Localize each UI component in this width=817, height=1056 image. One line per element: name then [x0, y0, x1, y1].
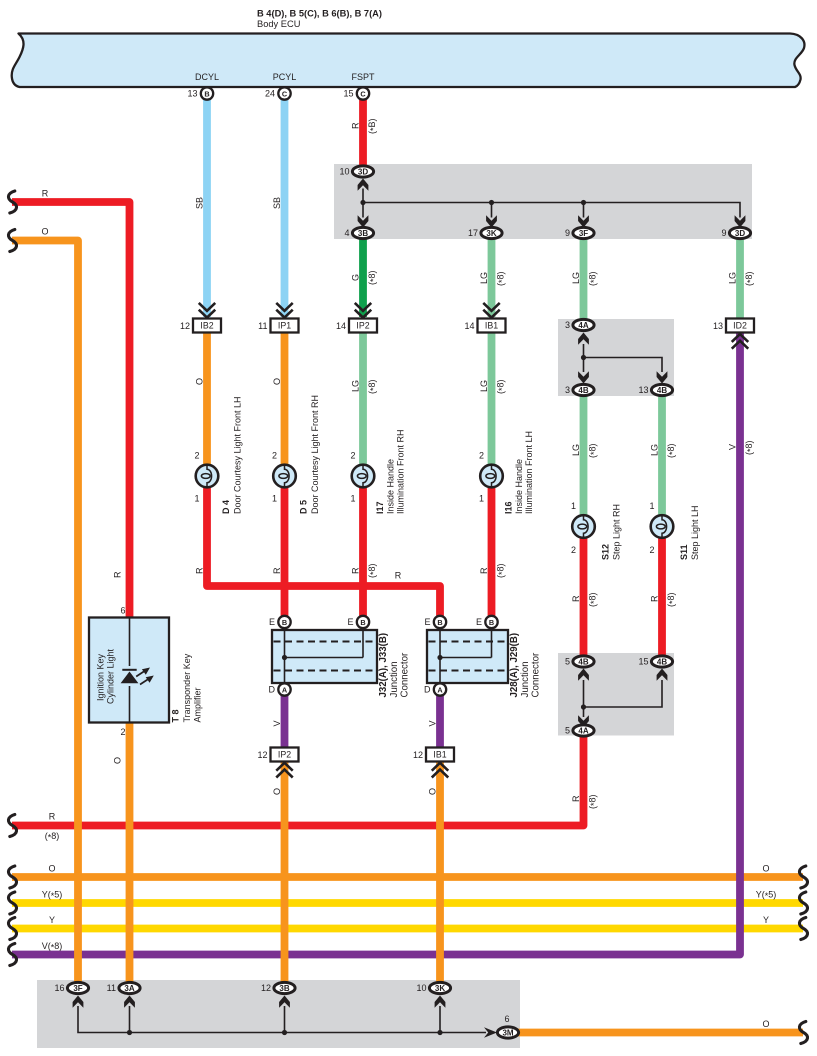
connector 15(4B) — [638, 656, 672, 667]
svg-text:13: 13 — [187, 89, 197, 99]
svg-text:R: R — [272, 567, 282, 574]
svg-text:LG: LG — [728, 272, 738, 284]
svg-text:1: 1 — [479, 494, 484, 504]
pin E(B) J32 right — [347, 616, 369, 628]
svg-text:(*8): (*8) — [666, 443, 678, 458]
wire O from 3M to right break — [518, 1029, 803, 1037]
svg-text:D 4: D 4 — [221, 500, 231, 514]
svg-text:2: 2 — [479, 451, 484, 461]
wire O horizontal bus — [12, 873, 803, 881]
svg-text:3B: 3B — [279, 984, 289, 993]
svg-text:Connector: Connector — [531, 652, 542, 697]
svg-text:3F: 3F — [73, 984, 82, 993]
svg-text:PCYL: PCYL — [273, 72, 297, 82]
svg-text:(*8): (*8) — [588, 592, 600, 607]
connector 16(3F) — [54, 982, 88, 993]
svg-text:C: C — [282, 89, 288, 98]
svg-text:Y: Y — [763, 915, 769, 925]
svg-text:(*8): (*8) — [666, 592, 678, 607]
wire LG from IP2 to I17 — [359, 332, 367, 476]
wire internal horizontal bus in relay block — [363, 203, 740, 218]
svg-text:Y(*5): Y(*5) — [756, 890, 777, 902]
svg-text:15: 15 — [638, 657, 648, 667]
svg-text:LG: LG — [479, 380, 489, 392]
junction dot at 3K column — [437, 1030, 442, 1035]
svg-text:Junction: Junction — [389, 661, 400, 697]
svg-text:Door Courtesy Light Front LH: Door Courtesy Light Front LH — [233, 396, 243, 514]
wire internal J28 horizontal — [440, 657, 492, 659]
svg-text:13: 13 — [713, 321, 723, 331]
pin 15(C) FSPT — [343, 87, 369, 99]
break symbol V bus left — [8, 944, 16, 966]
break symbol O arm left — [8, 230, 16, 252]
arrow up into ID2 — [733, 334, 748, 348]
wire internal drop from 3A — [129, 1006, 131, 1033]
svg-text:3: 3 — [565, 385, 570, 395]
wire internal T8 lower — [129, 686, 131, 723]
wire internal T8 upper — [129, 618, 131, 667]
svg-text:I16: I16 — [504, 501, 514, 514]
svg-text:(*8): (*8) — [588, 271, 600, 286]
svg-text:FSPT: FSPT — [351, 72, 375, 82]
svg-text:D: D — [424, 685, 431, 695]
svg-text:V: V — [428, 720, 438, 726]
wire O from IB2 to D4 — [203, 332, 211, 476]
svg-text:V(*8): V(*8) — [42, 941, 63, 953]
svg-text:24: 24 — [265, 89, 275, 99]
svg-text:B 4(D), B 5(C), B 6(B), B 7(A): B 4(D), B 5(C), B 6(B), B 7(A) — [257, 9, 382, 19]
wire internal J28 left vertical — [439, 630, 441, 683]
svg-text:B: B — [282, 618, 287, 627]
svg-text:2: 2 — [350, 451, 355, 461]
arrow down into connector 3K — [486, 215, 497, 227]
svg-text:C: C — [360, 89, 366, 98]
wire R from S12 to 5(4B) — [580, 538, 588, 662]
junction dot at 3D column — [360, 200, 365, 205]
svg-text:6: 6 — [504, 1014, 509, 1024]
svg-text:4B: 4B — [657, 386, 667, 395]
arrow down into connector 3B — [358, 215, 369, 227]
wire LG from IB1 to I16 — [488, 332, 496, 476]
svg-text:LG: LG — [571, 272, 581, 284]
arrow up into connector 3A — [124, 996, 135, 1008]
svg-text:R: R — [351, 122, 361, 129]
connector 12 IB2 — [180, 319, 221, 333]
svg-text:(*8): (*8) — [744, 440, 756, 455]
svg-text:(*8): (*8) — [744, 271, 756, 286]
bulb S11 Step Light LH — [651, 515, 674, 539]
svg-text:Ignition Key: Ignition Key — [96, 653, 106, 701]
svg-text:14: 14 — [464, 321, 474, 331]
svg-text:R: R — [113, 571, 123, 578]
wire R from D5 to J32 pin B — [281, 487, 289, 622]
svg-text:E: E — [347, 617, 353, 627]
wire Y horizontal bus — [12, 925, 803, 933]
svg-text:(*8): (*8) — [367, 379, 379, 394]
wire O from IP1 to D5 — [281, 332, 289, 476]
svg-text:4: 4 — [344, 228, 349, 238]
junction dot J32 — [282, 655, 287, 660]
svg-text:DCYL: DCYL — [195, 72, 219, 82]
svg-text:Connector: Connector — [400, 652, 411, 697]
break symbol Y bus left — [8, 918, 16, 940]
arrow down into connector 3(4B) — [578, 371, 589, 383]
wire V from ID2 down and across to left break — [12, 332, 740, 955]
wire R from S11 to 15(4B) — [658, 538, 666, 662]
svg-text:17: 17 — [468, 228, 478, 238]
junction dot at 3A column — [127, 1030, 132, 1035]
break symbol Y5 bus left — [8, 892, 16, 914]
svg-text:Body ECU: Body ECU — [257, 19, 300, 29]
junction dot at 3B column — [282, 1030, 287, 1035]
svg-text:IB1: IB1 — [433, 750, 446, 760]
svg-text:B: B — [360, 618, 365, 627]
LED ignition key cylinder light symbol — [121, 668, 154, 685]
svg-text:IP2: IP2 — [278, 750, 291, 760]
pin E(B) J28 left — [424, 616, 446, 628]
svg-text:Inside Handle: Inside Handle — [514, 459, 524, 514]
wire R bus from left break to 5(4A) — [12, 736, 584, 826]
connector 12 IB1 lower — [413, 748, 454, 762]
bulb D4 Door Courtesy Light Front LH — [196, 464, 219, 488]
break symbol Y5 bus right — [799, 892, 807, 914]
svg-text:IB1: IB1 — [485, 321, 498, 331]
svg-text:3B: 3B — [358, 229, 368, 238]
svg-text:O: O — [272, 788, 282, 795]
svg-text:11: 11 — [258, 321, 267, 331]
svg-text:2: 2 — [120, 727, 125, 737]
wire R arm from left break to T8 pin 6 — [12, 202, 130, 618]
junction dot above 5(4A) — [581, 704, 586, 709]
svg-text:3K: 3K — [435, 984, 445, 993]
arrow down into connector 5(4A) — [578, 715, 589, 727]
svg-text:4B: 4B — [657, 657, 667, 666]
arrow up into connector 3D — [358, 179, 369, 191]
connector 9(3D) — [721, 227, 750, 238]
wire LG from 3(4B) to S12 — [580, 395, 588, 527]
svg-text:SB: SB — [272, 197, 282, 209]
arrow down into connector 3D right — [735, 215, 746, 227]
arrow into IP1 — [277, 304, 292, 318]
wire internal 3D to 3B vertical — [362, 189, 364, 218]
svg-text:Cylinder Light: Cylinder Light — [106, 648, 116, 704]
connector 9(3F) — [565, 227, 594, 238]
wire V from J32 pin A to IP2 — [281, 690, 289, 749]
wire V from J28 pin A to IB1 — [436, 690, 444, 749]
svg-text:O: O — [195, 378, 205, 385]
break symbol O bus left — [8, 866, 16, 888]
svg-text:Amplifier: Amplifier — [193, 687, 203, 722]
svg-text:IB2: IB2 — [200, 321, 213, 331]
svg-text:(*8): (*8) — [367, 270, 379, 285]
connector 12(3B) — [261, 982, 295, 993]
arrow up into IP2 lower — [277, 763, 292, 777]
svg-text:V: V — [728, 444, 738, 450]
connector 12 IP2 lower — [257, 748, 298, 762]
wire internal drop from 3K — [439, 1006, 441, 1033]
connector 3(4A) — [565, 319, 594, 330]
relay block 4 upper grey background — [558, 319, 674, 396]
arrow up into connector 15(4B) — [657, 669, 668, 681]
svg-text:3F: 3F — [579, 229, 588, 238]
svg-text:R: R — [195, 567, 205, 574]
pin D(A) J32 — [269, 683, 291, 695]
connector 11 IP1 — [258, 319, 298, 333]
wire internal J32 left vertical — [284, 630, 286, 683]
svg-text:LG: LG — [571, 444, 581, 456]
wire LG from 3D to ID2 — [736, 239, 744, 320]
bulb S12 Step Light RH — [572, 515, 595, 539]
arrow up into connector 3B bottom — [279, 996, 290, 1008]
svg-text:(*8): (*8) — [496, 271, 508, 286]
connector 4(3B) — [344, 227, 373, 238]
svg-text:3K: 3K — [486, 229, 496, 238]
svg-text:2: 2 — [649, 545, 654, 555]
svg-text:1: 1 — [649, 501, 654, 511]
svg-text:1: 1 — [272, 494, 277, 504]
relay block 3 (instrument panel junction block) grey background — [334, 164, 752, 239]
connector 10(3K) — [416, 982, 450, 993]
svg-text:Y: Y — [49, 915, 55, 925]
svg-text:O: O — [762, 864, 769, 874]
wire R from I17 to J32 pin B right — [359, 487, 367, 622]
junction dot below 4A — [581, 355, 586, 360]
wire internal J32 horizontal — [285, 657, 364, 659]
svg-text:12: 12 — [257, 750, 267, 760]
svg-text:O: O — [113, 757, 123, 764]
svg-text:5: 5 — [565, 657, 570, 667]
svg-text:3D: 3D — [735, 229, 745, 238]
svg-text:Illumination Front RH: Illumination Front RH — [396, 429, 406, 514]
wire R from I16 to J28 pin B right — [488, 487, 496, 622]
Body ECU block — [12, 34, 805, 88]
svg-text:6: 6 — [120, 606, 125, 616]
arrow into IB1 — [484, 304, 499, 318]
connector 11(3A) — [107, 982, 140, 993]
wire internal 4A branch to 13(4B) — [584, 358, 663, 373]
svg-text:J28(A), J29(B): J28(A), J29(B) — [509, 633, 520, 698]
svg-text:O: O — [762, 1019, 769, 1029]
arrow up into connector 5(4B) — [578, 669, 589, 681]
wire internal J28 right vertical — [491, 630, 493, 658]
svg-text:16: 16 — [54, 983, 64, 993]
wire internal 4A to 4B vertical — [583, 344, 585, 372]
svg-text:1: 1 — [350, 494, 355, 504]
svg-text:I17: I17 — [375, 501, 385, 514]
wire O from T8 pin 2 to 3A — [126, 723, 134, 986]
wire internal drop to 3K — [491, 203, 493, 218]
pin 13(B) DCYL — [187, 87, 213, 99]
svg-text:1: 1 — [571, 501, 576, 511]
component T8 Transponder Key Amplifier body — [89, 618, 169, 723]
bottom relay block 3 grey background — [37, 980, 520, 1048]
svg-text:R: R — [42, 189, 49, 199]
wire O from IB1 connector to 3K — [436, 761, 444, 985]
svg-text:S12: S12 — [601, 544, 611, 560]
pin E(B) J28 right — [476, 616, 498, 628]
wire internal J32 right vertical — [362, 630, 364, 658]
svg-text:S11: S11 — [679, 544, 689, 560]
svg-text:B: B — [204, 89, 209, 98]
svg-text:3D: 3D — [358, 167, 368, 176]
svg-text:5: 5 — [565, 726, 570, 736]
svg-text:Illumination Front LH: Illumination Front LH — [524, 431, 534, 514]
wire R from FSPT to 3D — [359, 99, 367, 172]
junction dot at 3F column — [581, 200, 586, 205]
svg-text:Junction: Junction — [520, 661, 531, 697]
svg-text:4B: 4B — [578, 657, 588, 666]
break symbol Y bus right — [799, 918, 807, 940]
svg-text:A: A — [437, 685, 443, 694]
svg-text:LG: LG — [351, 380, 361, 392]
connector 10(3D) — [339, 166, 373, 177]
svg-text:R: R — [571, 595, 581, 602]
svg-text:4A: 4A — [578, 726, 588, 735]
connector 5(4A) — [565, 725, 594, 736]
svg-text:O: O — [48, 864, 55, 874]
svg-text:Transponder Key: Transponder Key — [182, 653, 192, 722]
wire R bus from D4 to junction connector J28 — [207, 487, 440, 622]
svg-text:IP1: IP1 — [278, 321, 291, 331]
svg-text:R: R — [479, 567, 489, 574]
arrow up into connector 4A — [578, 333, 589, 345]
svg-text:T 8: T 8 — [171, 709, 181, 722]
connector 14 IP2 — [336, 319, 377, 333]
svg-text:Door Courtesy Light Front RH: Door Courtesy Light Front RH — [310, 395, 320, 514]
svg-text:Y(*5): Y(*5) — [42, 890, 63, 902]
svg-text:10: 10 — [339, 167, 349, 177]
junction connector J28(A) J29(B) body — [427, 630, 508, 683]
wire O from IP2 connector to 3B — [281, 761, 289, 985]
pin D(A) J28 — [424, 683, 446, 695]
junction connector J32(A) J33(B) body — [272, 630, 377, 683]
svg-text:9: 9 — [565, 228, 570, 238]
svg-text:E: E — [424, 617, 430, 627]
wire G from 3B to IP2 — [359, 239, 367, 317]
svg-text:R: R — [395, 571, 402, 581]
svg-text:J32(A), J33(B): J32(A), J33(B) — [378, 633, 389, 698]
svg-text:(*8): (*8) — [588, 794, 600, 809]
connector 17(3K) — [468, 227, 502, 238]
svg-text:LG: LG — [479, 272, 489, 284]
svg-text:11: 11 — [107, 983, 116, 993]
svg-text:3A: 3A — [124, 984, 134, 993]
svg-text:B: B — [489, 618, 494, 627]
arrow right into connector 3M — [484, 1027, 497, 1038]
svg-text:B: B — [437, 618, 442, 627]
svg-text:A: A — [282, 685, 288, 694]
junction dot J28 — [437, 655, 442, 660]
svg-text:IP2: IP2 — [356, 321, 369, 331]
wire SB from DCYL to IB2 — [203, 99, 211, 317]
connector 5(4B) — [565, 656, 594, 667]
svg-text:LG: LG — [650, 444, 660, 456]
arrow up into connector 3F bottom — [73, 996, 84, 1008]
svg-text:(*8): (*8) — [367, 563, 379, 578]
svg-text:4B: 4B — [578, 386, 588, 395]
svg-text:Inside Handle: Inside Handle — [386, 459, 396, 514]
wire Y(5) horizontal bus — [12, 899, 803, 907]
break symbol R bus left — [8, 815, 16, 837]
wire LG from 3F to 4A — [580, 239, 588, 325]
arrow down into connector 13(4B) — [657, 371, 668, 383]
wire internal drop from 3B — [284, 1006, 286, 1033]
svg-text:O: O — [41, 227, 48, 237]
wire LG from 3K to IB1 — [488, 239, 496, 317]
svg-text:D 5: D 5 — [299, 500, 309, 514]
svg-text:O: O — [272, 378, 282, 385]
junction dot at 3K column — [489, 200, 494, 205]
svg-text:(*B): (*B) — [367, 118, 379, 134]
svg-text:2: 2 — [194, 451, 199, 461]
connector 3(4B) — [565, 384, 594, 395]
svg-text:R: R — [650, 595, 660, 602]
svg-text:(*8): (*8) — [45, 831, 60, 843]
bulb D5 Door Courtesy Light Front RH — [273, 464, 296, 488]
wire internal drop to 3F — [583, 203, 585, 218]
svg-text:(*8): (*8) — [588, 443, 600, 458]
svg-text:3M: 3M — [502, 1028, 513, 1037]
svg-text:(*8): (*8) — [496, 379, 508, 394]
pin 24(C) PCYL — [265, 87, 291, 99]
arrow down into connector 3F — [578, 215, 589, 227]
svg-text:2: 2 — [571, 545, 576, 555]
arrow into IP2 — [356, 304, 371, 318]
svg-text:2: 2 — [272, 451, 277, 461]
svg-text:E: E — [269, 617, 275, 627]
bulb I16 Inside Handle Illumination Front LH — [480, 464, 503, 488]
svg-text:E: E — [476, 617, 482, 627]
svg-text:3: 3 — [565, 320, 570, 330]
svg-text:12: 12 — [261, 983, 271, 993]
svg-text:R: R — [571, 795, 581, 802]
svg-text:R: R — [49, 812, 56, 822]
svg-text:15: 15 — [343, 89, 353, 99]
svg-text:10: 10 — [416, 983, 426, 993]
svg-text:9: 9 — [721, 228, 726, 238]
arrow up into IB1 lower — [433, 763, 448, 777]
connector 13 ID2 — [713, 319, 754, 333]
break symbol O bus right — [799, 866, 807, 888]
svg-text:1: 1 — [194, 494, 199, 504]
relay block 4 lower grey background — [558, 653, 674, 736]
svg-text:13: 13 — [638, 385, 648, 395]
svg-text:14: 14 — [336, 321, 346, 331]
svg-text:4A: 4A — [578, 321, 588, 330]
wire internal 5(4B) to 5(4A) vertical — [583, 680, 585, 717]
arrow into IB2 — [200, 304, 215, 318]
connector 14 IB1 — [464, 319, 505, 333]
wire internal bottom bus to 3M — [78, 1006, 486, 1033]
break symbol R arm left — [8, 191, 16, 213]
arrow up into connector 3K bottom — [435, 996, 446, 1008]
svg-text:SB: SB — [195, 197, 205, 209]
pin E(B) J32 left — [269, 616, 291, 628]
svg-text:R: R — [351, 567, 361, 574]
svg-text:12: 12 — [413, 750, 423, 760]
connector 13(4B) — [638, 384, 672, 395]
svg-text:D: D — [269, 685, 276, 695]
svg-text:O: O — [428, 788, 438, 795]
connector 6(3M) — [497, 1027, 518, 1038]
svg-text:ID2: ID2 — [733, 321, 747, 331]
svg-text:G: G — [351, 274, 361, 281]
svg-text:12: 12 — [180, 321, 190, 331]
bulb I17 Inside Handle Illumination Front RH — [352, 464, 375, 488]
break symbol O bottom right — [799, 1022, 807, 1044]
wire internal 15(4B) branch — [584, 680, 663, 707]
svg-text:(*8): (*8) — [496, 563, 508, 578]
